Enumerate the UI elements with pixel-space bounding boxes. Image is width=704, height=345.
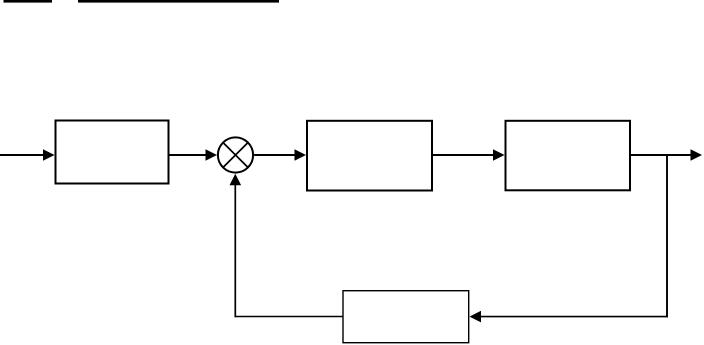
wire: feedback line left segment [235,316,344,318]
feedback block H(s) [343,291,469,343]
wire: feedback line right segment into feedback block [480,316,668,318]
wire: input line R(s) [0,154,44,156]
arrowhead output C(s) [691,149,703,161]
wire: summing junction to block 2 [254,154,296,156]
summing junction X diagonal 1 [223,143,248,168]
arrowhead into block 3 [493,149,505,161]
arrowhead into feedback block (pointing left) [470,311,482,323]
arrowhead into block 1 [43,149,55,161]
wire: feedback vertical up to summing junction [234,185,236,318]
wire: branch takeoff down from output node [666,154,668,317]
arrowhead into block 2 [295,149,307,161]
block 2 (forward path block) [307,121,432,191]
block 1 (input block) [56,121,169,184]
block 3 (forward path block) [506,121,631,191]
wire: block 2 to block 3 [433,154,494,156]
wire: block 3 to output [631,154,692,156]
arrowhead up into summing junction [230,174,242,186]
summing junction X diagonal 2 [223,143,248,168]
heading underline (long segment) [78,0,279,3]
wire: block 1 to summing junction [170,154,208,156]
arrowhead into summing junction [206,149,218,161]
summing junction (circle) [218,137,253,172]
heading underline (short segment, top-left) [4,0,53,3]
